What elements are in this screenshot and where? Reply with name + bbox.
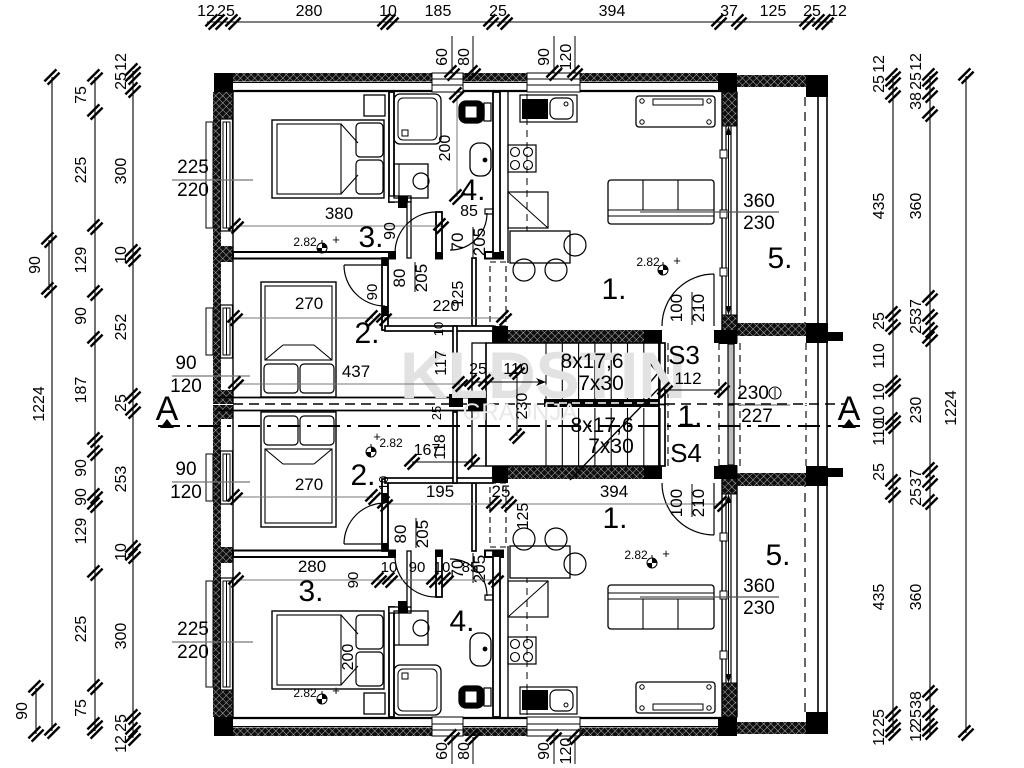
- svg-text:12: 12: [829, 3, 847, 20]
- kitchen cabinet (bottom): [508, 581, 548, 617]
- chair 3: [564, 234, 586, 256]
- svg-text:3.: 3.: [298, 575, 323, 608]
- chair 1 (bottom): [513, 528, 535, 550]
- sofa: [608, 180, 714, 224]
- window 90/120 room2 (bottom): [221, 451, 233, 504]
- stove: [508, 145, 536, 172]
- dim 10 hall: [431, 322, 446, 336]
- room label 1.: [601, 273, 626, 306]
- svg-text:230: 230: [737, 383, 769, 404]
- stair east wall (bottom): [659, 405, 665, 467]
- bath nook wall: [389, 196, 411, 208]
- dim 112 hall: [657, 369, 729, 398]
- dim 253 left3: [113, 466, 130, 493]
- svg-text:120: 120: [170, 482, 202, 503]
- dim 25 top: [217, 3, 235, 20]
- dim 125 hall: [450, 281, 467, 308]
- window 60/80 in top wall (bottom): [432, 717, 463, 736]
- label S3: [668, 340, 700, 370]
- dim 225 left2: [73, 157, 90, 184]
- dining table: [510, 231, 570, 263]
- svg-text:+: +: [332, 683, 340, 698]
- svg-text:394: 394: [599, 3, 626, 20]
- porch pier (bottom): [822, 468, 843, 477]
- sliding glass door: [720, 92, 737, 330]
- hall pier (bottom): [493, 466, 508, 483]
- svg-text:195: 195: [426, 482, 454, 501]
- section letter A left: [156, 390, 179, 428]
- window sill outside room2: [206, 308, 213, 355]
- dim 25 left3: [113, 394, 130, 412]
- svg-text:200: 200: [340, 644, 357, 671]
- svg-text:380: 380: [325, 204, 353, 223]
- shaft dashed (bottom): [490, 483, 506, 547]
- svg-text:37: 37: [720, 3, 738, 20]
- svg-text:270: 270: [295, 475, 323, 494]
- svg-text:435: 435: [871, 193, 888, 220]
- door jamb column: [436, 212, 442, 259]
- dim 25 midwall: [429, 406, 444, 420]
- svg-text:25: 25: [871, 709, 888, 727]
- dim 129 left2: [73, 247, 90, 274]
- porch dashed edges (bottom): [740, 405, 806, 466]
- svg-text:253: 253: [113, 466, 130, 493]
- dim 75 left2: [73, 86, 90, 104]
- svg-text:230: 230: [908, 397, 925, 424]
- svg-text:25: 25: [908, 488, 925, 506]
- dim 10 rightA: [871, 406, 888, 424]
- terrace bottom wall: [737, 323, 806, 336]
- svg-text:230: 230: [743, 213, 775, 234]
- hall right wall upper (bottom): [472, 483, 476, 551]
- dim 37 rightB: [908, 299, 925, 317]
- door label 85 top: [460, 203, 478, 220]
- top dimension line: [205, 14, 833, 29]
- left short 90 top: [27, 232, 57, 297]
- dim 90/120 bottom: [536, 729, 583, 764]
- door label 70/205 b: [448, 553, 489, 583]
- svg-text:85: 85: [462, 559, 479, 576]
- svg-text:10: 10: [113, 543, 130, 561]
- svg-text:12: 12: [871, 55, 888, 73]
- room label 2.: [354, 317, 379, 350]
- svg-text:2.82: 2.82: [636, 255, 660, 269]
- right chain A: [885, 68, 900, 740]
- svg-text:120: 120: [558, 44, 575, 71]
- window sill outside room2 (bottom): [206, 454, 213, 501]
- svg-text:25: 25: [492, 482, 511, 501]
- svg-text:129: 129: [73, 247, 90, 274]
- label 360/230 b: [640, 576, 779, 619]
- entry door head wall (bottom): [714, 466, 737, 479]
- wall bath/kitchen: [493, 92, 503, 259]
- svg-text:+: +: [373, 429, 381, 444]
- door label 100/210 top: [667, 292, 708, 325]
- dim 300 left3: [113, 623, 130, 650]
- svg-text:7x30: 7x30: [578, 372, 624, 395]
- section line A-A: [158, 425, 862, 427]
- svg-text:110: 110: [871, 343, 888, 369]
- benchmark room1 b: [624, 546, 669, 568]
- svg-text:187: 187: [73, 377, 90, 404]
- bed room2: [261, 282, 336, 397]
- dim 195 25 394 row: [377, 482, 729, 512]
- stair pier SW: [492, 466, 508, 479]
- bath sink: [470, 143, 491, 176]
- svg-text:394: 394: [600, 482, 628, 501]
- svg-text:10: 10: [376, 476, 391, 490]
- dim 10 left3: [113, 246, 130, 264]
- svg-text:12: 12: [113, 735, 130, 753]
- svg-text:37: 37: [908, 469, 925, 487]
- dim 437 room2: [228, 362, 467, 392]
- wall nook vertical: [407, 202, 411, 258]
- dim 25 left3: [113, 714, 130, 732]
- svg-text:129: 129: [73, 518, 90, 545]
- terrace pier NE: [806, 75, 828, 97]
- dim 252 left3: [113, 314, 130, 341]
- label window 225/220 b: [172, 619, 253, 663]
- bottom apartment (mirror of top): [206, 405, 843, 737]
- dim 25 rightB: [908, 72, 925, 90]
- pier at glass wall top (bottom): [718, 717, 737, 736]
- svg-text:90: 90: [364, 284, 381, 301]
- svg-text:100: 100: [667, 294, 686, 322]
- dim 37 top: [720, 3, 738, 20]
- svg-text:+: +: [662, 546, 670, 561]
- toilet: [459, 101, 491, 123]
- svg-text:60: 60: [434, 48, 451, 66]
- svg-text:360: 360: [908, 584, 925, 611]
- door bath arc: [450, 213, 487, 250]
- svg-text:90: 90: [73, 307, 90, 325]
- left chain 2: [87, 69, 102, 738]
- dim 200 bath: [437, 87, 465, 204]
- room label 2. b: [350, 459, 375, 492]
- hall/porch pier (bottom): [719, 465, 737, 473]
- dim 25 rightA: [871, 709, 888, 727]
- svg-text:90: 90: [73, 488, 90, 506]
- dim 12 top: [829, 3, 847, 20]
- svg-text:25: 25: [871, 463, 888, 481]
- dim 12 rightA: [871, 55, 888, 73]
- sliding glass door (bottom): [720, 479, 737, 717]
- vestibule wall (bottom): [453, 412, 457, 483]
- dim 12 rightA: [871, 728, 888, 746]
- dim 25 rightB: [908, 316, 925, 334]
- room label 5. b: [765, 539, 790, 572]
- stair cut diagonal: [570, 387, 660, 480]
- dim 118: [432, 434, 449, 460]
- dim 110 rightA: [871, 420, 888, 446]
- label window 225/220: [172, 157, 253, 201]
- terrace bottom wall (bottom): [737, 473, 806, 486]
- wall room3/room2: [233, 252, 503, 259]
- chair 2 (bottom): [545, 528, 567, 550]
- svg-text:225: 225: [177, 619, 209, 640]
- svg-text:118: 118: [432, 434, 449, 460]
- dim 110 rightA: [871, 343, 888, 369]
- dim 90 left2: [73, 488, 90, 506]
- svg-text:25: 25: [803, 3, 821, 20]
- benchmark room3: [293, 232, 339, 253]
- dim 10 hall b: [376, 476, 391, 490]
- entry wall band room1 (bottom): [508, 466, 662, 479]
- hall S3 dashed lines: [668, 343, 719, 404]
- door entry room1 arc (bottom): [662, 483, 714, 535]
- dim 12 left3: [113, 53, 130, 71]
- bed room3 (bottom): [272, 611, 384, 689]
- svg-text:360: 360: [908, 193, 925, 220]
- label window 90/120 b: [170, 459, 250, 503]
- svg-text:8x17,6: 8x17,6: [570, 414, 633, 437]
- benchmark room2 b: [366, 429, 403, 457]
- wall, top exterior band: [216, 73, 722, 91]
- door entry room1 arc: [662, 274, 714, 326]
- dim 125 top: [760, 3, 787, 20]
- svg-text:1224: 1224: [31, 386, 48, 422]
- left chain total 1224: [31, 69, 60, 738]
- svg-text:90: 90: [345, 572, 362, 589]
- wall room3/bath (bottom): [389, 607, 394, 717]
- glass wall piers: [722, 92, 737, 343]
- dim 360 rightB: [908, 193, 925, 220]
- svg-text:12: 12: [197, 3, 215, 20]
- svg-text:S4: S4: [670, 438, 702, 468]
- svg-text:5.: 5.: [767, 242, 792, 275]
- svg-text:90: 90: [175, 353, 196, 374]
- washing machine (bottom): [394, 611, 429, 645]
- room label 3.: [358, 221, 383, 254]
- nightstand room3 (bottom): [364, 693, 385, 714]
- chair 1: [513, 259, 535, 281]
- svg-text:120: 120: [170, 376, 202, 397]
- dim 60/80 top: [434, 36, 481, 81]
- svg-text:2.82: 2.82: [379, 436, 403, 450]
- svg-text:437: 437: [342, 362, 370, 381]
- svg-text:25: 25: [871, 312, 888, 330]
- dim 25 top: [803, 3, 821, 20]
- dim 38 rightB: [908, 92, 925, 110]
- hidden mid line (dashed): [233, 403, 845, 405]
- dim 38 rightB: [908, 691, 925, 709]
- dim 25 110 stair: [464, 361, 546, 390]
- svg-text:110: 110: [871, 420, 888, 446]
- wall room3/bath: [389, 92, 394, 202]
- kitchen sink unit (bottom): [520, 687, 577, 714]
- corner pier top-left (bottom): [214, 717, 233, 736]
- dim 125 b: [515, 503, 532, 530]
- stair up arrow: [648, 361, 658, 385]
- door jamb column (bottom): [436, 551, 442, 598]
- svg-text:75: 75: [73, 86, 90, 104]
- room label 5.: [767, 242, 792, 275]
- wall, top exterior band (bottom): [216, 718, 722, 736]
- room label 4. b: [449, 605, 474, 638]
- porch dashed edges: [740, 343, 806, 404]
- svg-text:1.: 1.: [601, 273, 626, 306]
- svg-text:38: 38: [908, 691, 925, 709]
- bath nook wall (bottom): [389, 601, 411, 613]
- dim 270 room2 b: [227, 475, 380, 505]
- label 1. hall: [677, 400, 702, 433]
- svg-text:300: 300: [113, 623, 130, 650]
- benchmark room3 b: [293, 683, 339, 704]
- kitchen sink unit: [520, 95, 577, 122]
- svg-text:25: 25: [217, 3, 235, 20]
- svg-text:10: 10: [379, 3, 397, 20]
- label 230/227 porch: [737, 383, 790, 427]
- svg-text:2.82: 2.82: [293, 235, 317, 249]
- terrace pier SE (bottom): [806, 466, 828, 486]
- dim 75 left2: [73, 699, 90, 717]
- hall left wall (bottom): [382, 479, 388, 551]
- terrace top wall (bottom): [737, 722, 806, 734]
- svg-text:90: 90: [409, 559, 426, 576]
- chair 3 (bottom): [564, 553, 586, 575]
- svg-text:25: 25: [871, 75, 888, 93]
- terrace dashed projection: [804, 97, 806, 323]
- dim 25 rightA: [871, 312, 888, 330]
- sideboard: [636, 96, 715, 127]
- dim 270 room2: [227, 294, 380, 326]
- svg-text:12: 12: [908, 724, 925, 742]
- dim 25 left3: [113, 72, 130, 90]
- svg-text:25: 25: [113, 72, 130, 90]
- svg-text:435: 435: [871, 584, 888, 611]
- dim 200 b: [340, 644, 357, 671]
- window 225/220 room3 (bottom): [221, 578, 233, 690]
- door room3 arc (bottom): [395, 556, 436, 597]
- stair pier NW: [492, 330, 508, 343]
- label window 90/120: [170, 353, 250, 397]
- svg-text:2.: 2.: [354, 317, 379, 350]
- svg-text:117: 117: [433, 350, 450, 376]
- svg-text:2.: 2.: [350, 459, 375, 492]
- wall, left exterior: [213, 92, 233, 404]
- shaft dashed: [490, 262, 506, 326]
- nightstand room3: [364, 95, 385, 116]
- svg-text:8x17,6: 8x17,6: [560, 350, 623, 373]
- dim 187 left2: [73, 377, 90, 404]
- hall left wall: [382, 258, 388, 330]
- room label 1. b: [602, 502, 627, 535]
- dim 360 rightB: [908, 584, 925, 611]
- svg-text:10: 10: [871, 383, 888, 401]
- dim 10 left3: [113, 543, 130, 561]
- label S4: [670, 438, 702, 468]
- dim 90/120 top: [536, 36, 583, 81]
- right chain total 1224: [943, 68, 974, 740]
- svg-text:90: 90: [382, 222, 399, 240]
- dim 12 rightB: [908, 724, 925, 742]
- chair 2: [545, 259, 567, 281]
- stove (bottom): [508, 637, 536, 664]
- watermark: [400, 338, 686, 426]
- svg-text:125: 125: [450, 281, 467, 308]
- svg-text:2.82: 2.82: [293, 686, 317, 700]
- pier at glass wall top: [718, 73, 737, 92]
- washing machine: [394, 164, 429, 198]
- dining table (bottom): [510, 546, 570, 578]
- bed room2 (bottom): [261, 412, 336, 527]
- svg-text:280: 280: [298, 557, 326, 576]
- svg-text:38: 38: [908, 92, 925, 110]
- svg-text:70: 70: [448, 233, 467, 252]
- wall bath/kitchen (bottom): [493, 551, 503, 718]
- stair text up: [560, 350, 623, 395]
- kitchen cabinet: [508, 192, 548, 228]
- dim 60/80 bottom: [434, 729, 481, 764]
- svg-text:10: 10: [431, 322, 446, 336]
- dim 129 left2: [73, 518, 90, 545]
- svg-text:7x30: 7x30: [588, 435, 634, 458]
- svg-text:1.: 1.: [602, 502, 627, 535]
- stair west wall (bottom): [472, 405, 486, 467]
- label 360/230 top: [640, 191, 779, 234]
- door label 70/205 top: [448, 227, 489, 257]
- svg-text:12: 12: [908, 53, 925, 71]
- stair pier NW (bottom): [492, 466, 508, 479]
- sideboard (bottom): [636, 682, 715, 713]
- dim 25 rightB: [908, 709, 925, 727]
- stair west wall: [472, 343, 486, 405]
- dim 380 room3: [228, 204, 448, 234]
- svg-text:80: 80: [456, 742, 473, 760]
- hall right wall upper: [472, 258, 476, 326]
- terrace right wall: [818, 87, 827, 722]
- svg-text:3.: 3.: [358, 221, 383, 254]
- svg-text:25: 25: [908, 316, 925, 334]
- dim 230 rightB: [908, 397, 925, 424]
- svg-text:4.: 4.: [449, 605, 474, 638]
- benchmark room1: [636, 253, 680, 275]
- svg-text:25: 25: [113, 714, 130, 732]
- svg-text:90: 90: [73, 459, 90, 477]
- svg-text:125: 125: [515, 503, 532, 530]
- door room2 arc (bottom): [344, 503, 385, 544]
- svg-text:200: 200: [437, 135, 454, 162]
- svg-text:+: +: [673, 253, 681, 268]
- dim 280 top: [296, 3, 323, 20]
- bath door stub: [485, 209, 494, 214]
- kitchen counter edge: [508, 92, 527, 263]
- svg-text:280: 280: [296, 3, 323, 20]
- window 90/120 in top wall (bottom): [527, 717, 580, 736]
- dim 117: [433, 350, 450, 376]
- mid wall between apartments: [216, 394, 486, 411]
- dim row 280 b: [228, 557, 503, 588]
- svg-text:100: 100: [667, 489, 686, 517]
- svg-text:80: 80: [390, 269, 409, 288]
- room label 4.: [460, 174, 485, 207]
- svg-text:25: 25: [908, 72, 925, 90]
- svg-text:+: +: [332, 232, 340, 247]
- dim 25 rightA: [871, 463, 888, 481]
- svg-text:80: 80: [391, 525, 410, 544]
- entry glass door column (bottom): [728, 405, 734, 465]
- svg-text:80: 80: [456, 48, 473, 66]
- porch pier: [822, 332, 843, 341]
- svg-text:12: 12: [871, 728, 888, 746]
- door label 100/210 b: [667, 484, 708, 517]
- window sill outside room3 (bottom): [206, 581, 213, 687]
- svg-text:300: 300: [113, 158, 130, 185]
- left chain 3: [125, 63, 140, 745]
- svg-text:25: 25: [469, 361, 487, 378]
- svg-text:1224: 1224: [943, 390, 960, 426]
- hall bottom wall: [385, 326, 493, 331]
